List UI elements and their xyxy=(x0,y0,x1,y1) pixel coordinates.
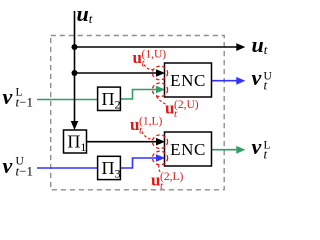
node: junction dot 1 xyxy=(72,44,78,50)
block Pi3 xyxy=(98,156,121,180)
ellipse marker u^(1,U) around ENC-U input 1 xyxy=(152,66,167,80)
leader to label u^(2,U) xyxy=(157,97,168,105)
svg-text:(1,L): (1,L) xyxy=(139,116,162,128)
wire: branch to ENC-U input 1 xyxy=(75,72,158,74)
svg-text:v: v xyxy=(3,153,13,178)
svg-text:(2,U): (2,U) xyxy=(174,99,199,111)
wire: black Pi1 to ENC-L input 1 xyxy=(87,141,158,143)
wire: green Pi2 to ENC-U input 2 xyxy=(120,90,157,100)
svg-text:t: t xyxy=(264,78,268,93)
block Pi1 xyxy=(64,130,87,154)
svg-text:(1,U): (1,U) xyxy=(142,49,167,61)
svg-text:v: v xyxy=(252,134,262,159)
wire: u_t vertical input line with arrow into Pi1 xyxy=(74,11,76,122)
block ENC L xyxy=(165,132,212,166)
svg-text:v: v xyxy=(252,65,262,90)
svg-text:v: v xyxy=(3,84,13,109)
wire: green v_{t-1}^L input to Pi2 xyxy=(37,99,98,101)
leader to label u^(1,L) xyxy=(142,132,153,140)
svg-text:t−1: t−1 xyxy=(16,164,33,179)
svg-text:ENC: ENC xyxy=(170,71,206,90)
block Pi2 xyxy=(98,87,121,111)
svg-text:t: t xyxy=(264,147,268,162)
leader to label u^(1,U) xyxy=(144,65,154,70)
dashed enclosure box xyxy=(51,36,225,190)
wire: blue v_{t-1}^U input to Pi3 xyxy=(37,167,98,169)
wire: green ENC-L output xyxy=(212,149,238,151)
ellipse marker u^(2,L) around ENC-L input 2 xyxy=(152,151,167,165)
svg-text:(2,L): (2,L) xyxy=(160,171,183,183)
wire: blue Pi3 to ENC-L input 2 xyxy=(120,158,157,168)
node: junction dot 2 xyxy=(72,70,78,76)
svg-text:ENC: ENC xyxy=(170,140,206,159)
wire: u_t passthrough branch to right output xyxy=(75,46,238,48)
svg-text:t−1: t−1 xyxy=(16,95,33,110)
wire: blue ENC-U output xyxy=(212,80,238,82)
ellipse marker u^(1,L) around ENC-L input 1 xyxy=(152,135,167,149)
block ENC U xyxy=(165,63,212,97)
ellipse marker u^(2,U) around ENC-U input 2 xyxy=(152,83,167,97)
leader to label u^(2,L) xyxy=(159,165,161,173)
